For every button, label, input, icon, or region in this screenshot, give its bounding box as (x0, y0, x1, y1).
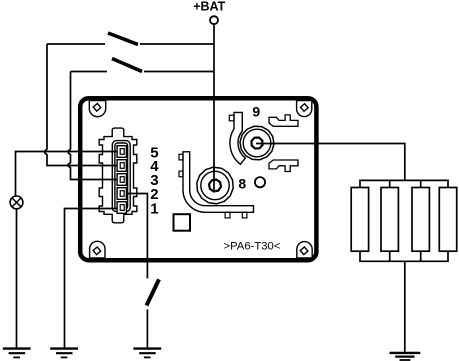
svg-text:8: 8 (238, 176, 246, 192)
svg-text:9: 9 (252, 104, 260, 120)
svg-text:1: 1 (150, 200, 158, 217)
svg-text:+BAT: +BAT (193, 0, 225, 13)
svg-text:>PA6-T30<: >PA6-T30< (224, 240, 281, 252)
